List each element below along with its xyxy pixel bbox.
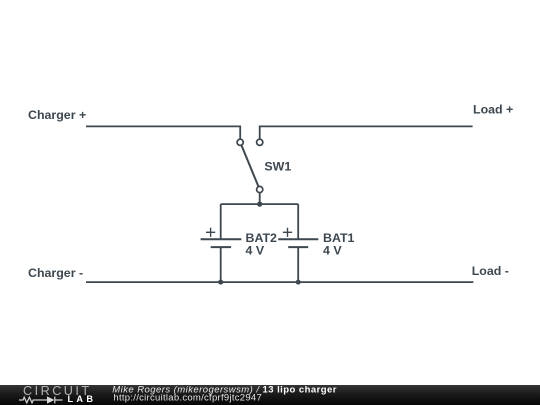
- svg-text:LAB: LAB: [68, 394, 97, 404]
- svg-text:Load -: Load -: [472, 264, 509, 278]
- svg-text:Load +: Load +: [473, 102, 513, 116]
- svg-text:4 V: 4 V: [323, 244, 342, 258]
- svg-text:Charger +: Charger +: [28, 108, 86, 122]
- svg-text:4 V: 4 V: [246, 244, 265, 258]
- svg-text:SW1: SW1: [264, 159, 291, 173]
- svg-text:Charger -: Charger -: [28, 266, 83, 280]
- svg-text:http://circuitlab.com/cfprf9jt: http://circuitlab.com/cfprf9jtc2947: [113, 393, 262, 404]
